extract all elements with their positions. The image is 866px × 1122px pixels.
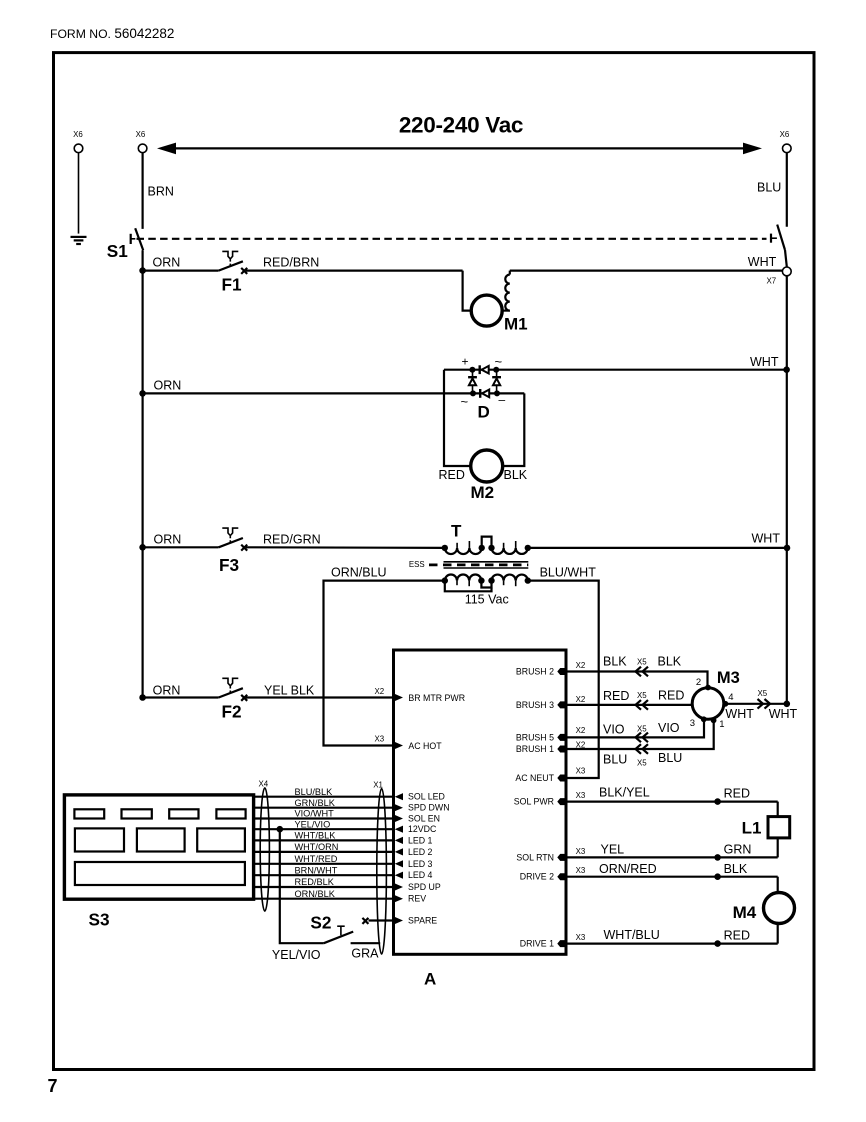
svg-text:BLK/YEL: BLK/YEL [599, 786, 650, 800]
svg-text:~: ~ [495, 354, 503, 369]
svg-text:12VDC: 12VDC [408, 824, 437, 834]
svg-text:SPD DWN: SPD DWN [408, 803, 450, 813]
svg-text:WHT: WHT [725, 707, 754, 721]
svg-text:D: D [478, 403, 490, 422]
svg-text:X4: X4 [259, 780, 269, 789]
svg-text:AC NEUT: AC NEUT [515, 773, 554, 783]
svg-text:RED: RED [724, 786, 750, 800]
svg-text:ESS: ESS [409, 560, 425, 569]
svg-text:7: 7 [48, 1076, 58, 1096]
svg-text:SOL LED: SOL LED [408, 792, 445, 802]
svg-text:X5: X5 [637, 691, 647, 700]
svg-text:GRN/BLK: GRN/BLK [295, 798, 336, 808]
svg-text:LED 2: LED 2 [408, 847, 433, 857]
svg-text:BRN/WHT: BRN/WHT [295, 865, 338, 875]
svg-text:M1: M1 [504, 315, 528, 334]
svg-text:4: 4 [728, 692, 733, 703]
svg-text:M3: M3 [717, 669, 740, 687]
svg-text:RED: RED [724, 929, 750, 943]
svg-text:YEL/VIO: YEL/VIO [272, 948, 321, 962]
svg-text:RED: RED [658, 689, 684, 703]
svg-text:SPARE: SPARE [408, 916, 437, 926]
svg-text:BRUSH 1: BRUSH 1 [516, 744, 554, 754]
svg-text:A: A [424, 970, 436, 989]
svg-text:X3: X3 [576, 791, 586, 800]
svg-text:X3: X3 [375, 735, 385, 744]
svg-text:WHT/ORN: WHT/ORN [295, 842, 339, 852]
svg-text:WHT: WHT [752, 532, 781, 546]
svg-text:SPD UP: SPD UP [408, 882, 441, 892]
svg-text:X5: X5 [637, 658, 647, 667]
svg-text:VIO: VIO [658, 721, 680, 735]
svg-text:BLU/BLK: BLU/BLK [295, 787, 334, 797]
svg-text:3: 3 [690, 718, 695, 729]
svg-text:GRA: GRA [351, 947, 379, 961]
svg-text:X2: X2 [576, 726, 586, 735]
svg-text:WHT: WHT [769, 707, 798, 721]
svg-text:BRUSH 5: BRUSH 5 [516, 732, 554, 742]
svg-text:X3: X3 [576, 866, 586, 875]
svg-text:VIO/WHT: VIO/WHT [295, 809, 335, 819]
svg-text:S1: S1 [107, 241, 128, 261]
svg-text:WHT/RED: WHT/RED [295, 854, 338, 864]
svg-text:FORM NO. 56042282: FORM NO. 56042282 [50, 26, 174, 41]
svg-text:T: T [451, 522, 462, 541]
svg-text:1: 1 [719, 719, 724, 730]
svg-text:X3: X3 [576, 847, 586, 856]
svg-text:WHT/BLU: WHT/BLU [604, 928, 660, 942]
svg-text:BRUSH 3: BRUSH 3 [516, 700, 554, 710]
svg-text:DRIVE 1: DRIVE 1 [520, 939, 554, 949]
svg-text:X7: X7 [767, 277, 777, 286]
svg-text:X1: X1 [373, 781, 383, 790]
svg-text:RED/BRN: RED/BRN [263, 256, 319, 270]
svg-text:ORN/RED: ORN/RED [599, 862, 657, 876]
svg-text:F2: F2 [222, 702, 242, 722]
svg-text:VIO: VIO [603, 723, 625, 737]
svg-text:LED 4: LED 4 [408, 870, 433, 880]
svg-text:RED/GRN: RED/GRN [263, 533, 321, 547]
svg-text:M4: M4 [733, 903, 757, 922]
svg-text:BRUSH 2: BRUSH 2 [516, 667, 554, 677]
svg-text:F1: F1 [222, 275, 242, 295]
svg-text:YEL/VIO: YEL/VIO [295, 819, 331, 829]
svg-text:S3: S3 [89, 910, 110, 930]
svg-text:ORN: ORN [153, 256, 181, 270]
svg-text:X2: X2 [576, 661, 586, 670]
svg-text:DRIVE 2: DRIVE 2 [520, 872, 554, 882]
svg-text:L1: L1 [742, 819, 762, 838]
svg-text:WHT: WHT [750, 355, 779, 369]
svg-text:BLK: BLK [603, 655, 627, 669]
svg-text:–: – [499, 393, 506, 407]
svg-text:SOL RTN: SOL RTN [516, 852, 554, 862]
svg-text:ORN: ORN [154, 379, 182, 393]
svg-text:F3: F3 [219, 555, 239, 575]
svg-text:ORN: ORN [154, 533, 182, 547]
svg-text:X5: X5 [758, 689, 768, 698]
svg-text:BRN: BRN [148, 185, 174, 199]
svg-text:REV: REV [408, 894, 426, 904]
svg-text:220-240 Vac: 220-240 Vac [399, 113, 523, 138]
svg-text:BLU: BLU [757, 181, 781, 195]
svg-text:X6: X6 [780, 130, 790, 139]
svg-text:X6: X6 [136, 130, 146, 139]
svg-text:X6: X6 [73, 130, 83, 139]
svg-text:RED/BLK: RED/BLK [295, 877, 335, 887]
svg-text:BR MTR PWR: BR MTR PWR [408, 693, 465, 703]
svg-text:M2: M2 [471, 483, 495, 502]
svg-text:X5: X5 [637, 725, 647, 734]
svg-text:YEL: YEL [601, 843, 625, 857]
svg-text:2: 2 [696, 677, 701, 688]
svg-text:BLK: BLK [658, 655, 682, 669]
svg-text:RED: RED [603, 689, 629, 703]
svg-text:SOL PWR: SOL PWR [514, 797, 554, 807]
svg-text:BLU: BLU [603, 753, 627, 767]
svg-text:AC HOT: AC HOT [408, 741, 442, 751]
svg-text:BLK: BLK [504, 468, 528, 482]
svg-text:115 Vac: 115 Vac [465, 592, 509, 606]
svg-text:ORN/BLU: ORN/BLU [331, 566, 387, 580]
svg-text:YEL BLK: YEL BLK [264, 684, 315, 698]
svg-text:X3: X3 [576, 933, 586, 942]
svg-text:LED 3: LED 3 [408, 859, 433, 869]
svg-text:RED: RED [439, 468, 465, 482]
svg-text:WHT/BLK: WHT/BLK [295, 831, 337, 841]
svg-text:S2: S2 [310, 912, 331, 932]
svg-text:ORN/BLK: ORN/BLK [295, 889, 336, 899]
svg-text:ORN: ORN [153, 684, 181, 698]
svg-text:X2: X2 [375, 687, 385, 696]
svg-text:X2: X2 [576, 695, 586, 704]
svg-text:LED 1: LED 1 [408, 835, 433, 845]
svg-text:BLU: BLU [658, 751, 682, 765]
svg-text:WHT: WHT [748, 255, 777, 269]
svg-text:+: + [462, 355, 469, 369]
svg-text:~: ~ [461, 394, 469, 409]
svg-text:SOL EN: SOL EN [408, 814, 440, 824]
svg-text:X5: X5 [637, 759, 647, 768]
svg-text:BLK: BLK [724, 862, 748, 876]
svg-text:X3: X3 [576, 767, 586, 776]
svg-text:GRN: GRN [724, 843, 752, 857]
svg-text:BLU/WHT: BLU/WHT [540, 566, 597, 580]
